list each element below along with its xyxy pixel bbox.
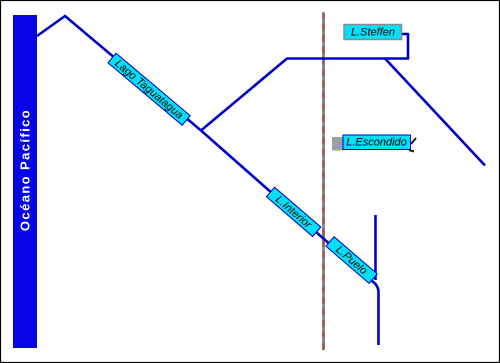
svg-text:Océano Pacífico: Océano Pacífico xyxy=(18,109,33,231)
river: estuary to junction (main stem upper) xyxy=(37,16,201,131)
river: southeast branch xyxy=(385,59,485,166)
pointer mark right of box xyxy=(411,138,416,144)
border line (gray) xyxy=(322,13,325,350)
river: northeast branch to L.Steffen xyxy=(201,34,408,131)
svg-text:L.Steffen: L.Steffen xyxy=(351,27,395,39)
label L.Puelo xyxy=(326,237,378,284)
border line red dashes xyxy=(323,12,325,350)
gray nub left of box xyxy=(332,137,343,151)
label Lago Taguatagua xyxy=(108,53,190,125)
label L.Interior xyxy=(266,187,321,236)
ocean bar: Océano Pacífico xyxy=(13,15,37,348)
svg-text:L.Escondido: L.Escondido xyxy=(346,137,407,149)
label L.Steffen xyxy=(344,25,402,40)
river: upper vertical at Lago Puelo xyxy=(374,215,377,280)
label L.Escondido xyxy=(332,135,416,152)
river: main stem junction to Lago Puelo elbow xyxy=(201,131,379,346)
